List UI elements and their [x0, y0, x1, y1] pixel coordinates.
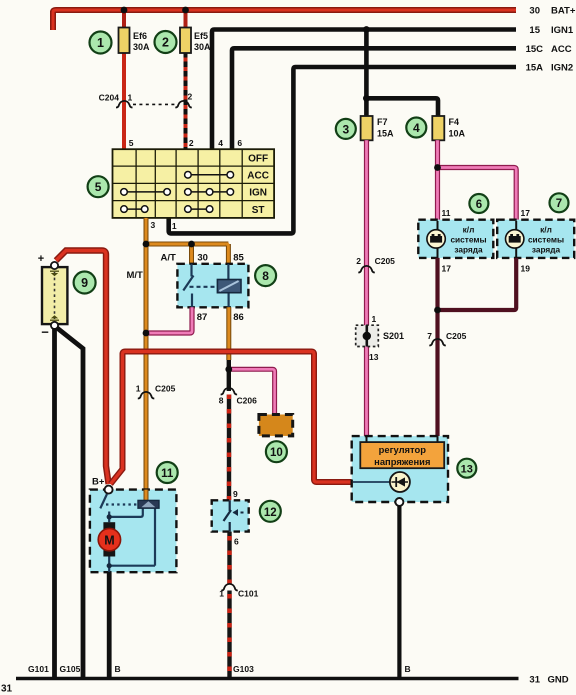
switch contacts row IGN — [121, 189, 234, 196]
svg-text:31: 31 — [529, 675, 540, 686]
svg-text:86: 86 — [233, 312, 244, 323]
svg-text:9: 9 — [233, 489, 238, 499]
junction 87 / M/T — [143, 330, 150, 337]
svg-text:6: 6 — [234, 537, 239, 547]
svg-text:13: 13 — [369, 352, 379, 362]
svg-text:3: 3 — [342, 122, 349, 136]
wire F4 to lamp 6 (pink) — [435, 140, 440, 219]
green circle 3 — [336, 119, 356, 139]
svg-text:заряда: заряда — [454, 245, 483, 255]
green circle 13 — [457, 459, 476, 478]
junction BAT+ / Ef6 — [121, 7, 128, 14]
svg-text:+: + — [38, 253, 44, 265]
wire IGN1 to fuse F7 — [364, 30, 369, 117]
svg-text:−: − — [41, 325, 49, 340]
svg-text:GND: GND — [548, 675, 569, 686]
wire relay pin 30 (orange) — [189, 244, 194, 264]
svg-text:C101: C101 — [238, 589, 259, 599]
wire fuse Ef6 to switch pin 5 (red) — [122, 52, 126, 149]
wire 15C ACC — [232, 48, 516, 149]
label 15C ACC — [526, 44, 572, 55]
svg-text:19: 19 — [521, 264, 531, 274]
svg-text:G103: G103 — [233, 664, 254, 674]
svg-text:15A: 15A — [377, 129, 394, 139]
fuse F7 15A — [361, 116, 394, 140]
svg-text:2: 2 — [162, 36, 169, 50]
connector 7 C205 — [427, 331, 466, 346]
svg-text:11: 11 — [161, 468, 174, 480]
wire 15A IGN2 — [169, 67, 516, 233]
wire fuse Ef5 to switch pin 2 (red/black) — [184, 52, 188, 149]
svg-text:1: 1 — [372, 314, 377, 324]
svg-text:8: 8 — [262, 269, 269, 283]
svg-text:B: B — [115, 664, 121, 674]
label M/T — [127, 270, 144, 281]
svg-text:3: 3 — [151, 220, 156, 230]
svg-text:Ef5: Ef5 — [194, 31, 208, 41]
svg-text:30A: 30A — [133, 42, 150, 52]
label G101 — [28, 664, 49, 674]
svg-text:10: 10 — [270, 447, 283, 459]
svg-text:1: 1 — [97, 36, 104, 50]
green circle 2 — [155, 31, 177, 53]
wire battery - to G101 — [52, 328, 57, 679]
switch contacts row ACC — [185, 172, 234, 179]
svg-text:2: 2 — [189, 138, 194, 148]
svg-text:1: 1 — [136, 384, 141, 394]
wire battery + to starter B+ feed — [56, 251, 109, 485]
relay 8 — [177, 253, 248, 324]
svg-text:87: 87 — [197, 312, 208, 323]
wire M/T orange (switch pin 3 to starter solenoid) — [144, 218, 149, 491]
svg-text:11: 11 — [442, 208, 451, 218]
wire relay pin 85 (orange) — [226, 244, 228, 264]
label G103 — [233, 664, 254, 674]
svg-text:6: 6 — [237, 138, 242, 148]
wire lamp 6 to regulator (dark maroon) — [435, 258, 439, 436]
label 31 GND (right) — [529, 675, 568, 686]
svg-text:17: 17 — [521, 208, 531, 218]
fuse Ef6 30A — [119, 28, 151, 54]
connector 8 C206 — [219, 388, 257, 406]
fuse F4 10A — [432, 116, 465, 140]
svg-text:17: 17 — [442, 264, 452, 274]
ground bus 31 — [16, 677, 519, 681]
svg-text:BAT+: BAT+ — [551, 6, 576, 17]
connector C204 — [99, 92, 193, 108]
svg-text:заряда: заряда — [532, 245, 561, 255]
svg-text:31: 31 — [1, 684, 13, 695]
svg-text:C205: C205 — [155, 384, 176, 394]
svg-text:IGN: IGN — [249, 188, 267, 199]
junction A/T / pin30 — [188, 241, 195, 248]
diagnostic connector 10 — [259, 415, 293, 436]
svg-text:12: 12 — [264, 507, 277, 519]
svg-text:M/T: M/T — [127, 270, 144, 281]
svg-text:30: 30 — [529, 6, 540, 17]
wire branch to lamp 7 (pink) — [438, 168, 517, 220]
svg-text:30: 30 — [197, 253, 208, 264]
junction M/T / A/T — [143, 241, 150, 248]
svg-text:регулятор: регулятор — [379, 444, 427, 455]
svg-text:системы: системы — [450, 235, 486, 245]
label 30 BAT+ — [529, 6, 575, 17]
splice S201 — [356, 314, 404, 362]
svg-text:7: 7 — [427, 331, 432, 341]
junction F4 / lamp7 branch — [434, 164, 441, 171]
wire starter B+ to generator output — [111, 352, 352, 485]
svg-text:к/л: к/л — [540, 225, 552, 235]
wire to fuse F4 — [366, 98, 438, 116]
wire C206 to switch 12 (black/red) — [227, 395, 231, 501]
svg-text:ST: ST — [252, 205, 265, 216]
svg-text:ACC: ACC — [247, 170, 269, 181]
battery 9 — [38, 253, 68, 340]
svg-text:G105: G105 — [60, 664, 81, 674]
svg-text:C206: C206 — [237, 396, 258, 406]
connector 1 C101 — [219, 584, 258, 599]
svg-text:C205: C205 — [375, 256, 396, 266]
green circle 12 — [260, 501, 281, 522]
svg-text:IGN2: IGN2 — [551, 63, 573, 74]
svg-text:Ef6: Ef6 — [133, 31, 147, 41]
starter motor 11 — [90, 477, 176, 573]
junction IGN1 / F7 — [363, 26, 370, 33]
connector 1 C205 — [136, 384, 176, 399]
svg-text:30A: 30A — [194, 42, 211, 52]
svg-text:A/T: A/T — [161, 253, 177, 264]
svg-text:5: 5 — [95, 180, 102, 194]
svg-text:IGN1: IGN1 — [551, 25, 574, 36]
green circle 6 — [469, 194, 488, 213]
svg-text:15A: 15A — [526, 63, 544, 74]
wire battery - to G105 — [57, 328, 84, 679]
label 15 IGN1 — [529, 25, 573, 36]
svg-text:5: 5 — [129, 138, 134, 148]
wire 12 to C101 (black/red) — [227, 532, 231, 584]
svg-text:4: 4 — [218, 138, 223, 148]
wire lamp 7 down (dark maroon) — [438, 258, 517, 310]
svg-text:4: 4 — [413, 121, 420, 135]
green circle 4 — [406, 118, 426, 138]
svg-text:C204: C204 — [99, 93, 120, 103]
wire starter motor to ground B — [107, 572, 112, 678]
svg-text:OFF: OFF — [248, 153, 268, 164]
svg-text:1: 1 — [172, 221, 177, 231]
label 15A IGN2 — [526, 63, 574, 74]
wire relay 87 to M/T (pink) — [146, 307, 192, 333]
wire to connector 10 (pink) — [229, 369, 275, 414]
green circle 5 — [88, 176, 109, 197]
svg-text:2: 2 — [188, 92, 193, 102]
label pin 6 — [234, 537, 239, 547]
wire fuse Ef6 feed — [122, 10, 126, 28]
svg-text:7: 7 — [556, 198, 562, 210]
voltage regulator 13 (generator) — [352, 436, 448, 506]
park/neutral switch 12 — [212, 500, 249, 531]
green circle 7 — [550, 193, 569, 212]
svg-text:1: 1 — [219, 589, 224, 599]
green circle 11 — [157, 462, 178, 483]
wire C101 to ground G103 (black/red) — [227, 591, 231, 679]
svg-text:85: 85 — [233, 253, 244, 264]
label B (regulator ground) — [405, 664, 411, 674]
wire fuse Ef5 feed — [184, 10, 188, 28]
connector 2 C205 — [356, 256, 395, 273]
ignition switch 5 — [113, 138, 275, 231]
label A/T — [161, 253, 177, 264]
wire A/T orange — [146, 242, 228, 247]
wire 15 IGN1 — [212, 30, 516, 150]
svg-text:15: 15 — [529, 25, 540, 36]
svg-text:S201: S201 — [383, 331, 404, 341]
label G105 — [60, 664, 81, 674]
wire 30 BAT+ bus — [53, 10, 516, 30]
indicator lamp 7 (charge warning) — [497, 208, 574, 274]
svg-text:системы: системы — [528, 235, 564, 245]
svg-text:ACC: ACC — [551, 44, 572, 55]
svg-text:F4: F4 — [449, 117, 460, 127]
fuse Ef5 30A — [180, 28, 211, 54]
svg-text:15C: 15C — [526, 44, 544, 55]
label pin 9 — [233, 489, 238, 499]
svg-text:2: 2 — [356, 256, 361, 266]
svg-text:1: 1 — [128, 93, 133, 103]
svg-text:6: 6 — [476, 199, 482, 211]
label B (starter ground) — [115, 664, 121, 674]
svg-text:напряжения: напряжения — [374, 456, 430, 467]
svg-text:F7: F7 — [377, 117, 388, 127]
svg-text:9: 9 — [81, 276, 88, 290]
svg-text:к/л: к/л — [463, 225, 475, 235]
junction F7 branch — [363, 95, 370, 102]
svg-text:G101: G101 — [28, 664, 49, 674]
junction BAT+ / Ef5 — [182, 7, 189, 14]
green circle 8 — [255, 265, 276, 286]
svg-text:13: 13 — [461, 464, 473, 476]
junction maroon wires — [434, 307, 441, 314]
wire relay 86 down (orange then black) — [226, 307, 231, 391]
svg-text:B: B — [405, 664, 411, 674]
green circle 9 — [74, 272, 96, 294]
svg-text:8: 8 — [219, 396, 224, 406]
svg-text:10A: 10A — [449, 129, 466, 139]
svg-text:C205: C205 — [446, 331, 467, 341]
wire F7 to regulator (pink) — [364, 140, 369, 436]
svg-text:B+: B+ — [92, 477, 105, 488]
label 31 (left) — [1, 684, 13, 695]
green circle 1 — [90, 32, 112, 54]
green circle 10 — [266, 441, 287, 462]
svg-text:M: M — [104, 533, 114, 547]
switch contacts row ST — [121, 206, 213, 213]
junction 86 / connector 10 — [225, 366, 232, 373]
indicator lamp 6 (charge warning) — [418, 208, 493, 274]
wire regulator to ground B — [397, 506, 401, 679]
